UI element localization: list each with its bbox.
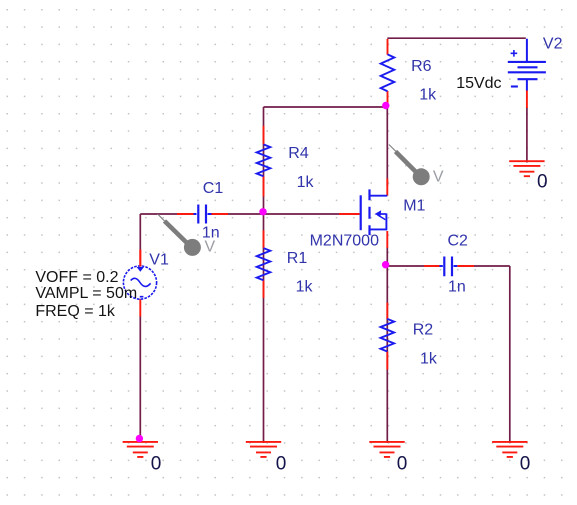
- svg-text:M2N7000: M2N7000: [310, 232, 379, 249]
- svg-text:0: 0: [520, 453, 531, 474]
- svg-text:V1: V1: [149, 252, 169, 269]
- svg-text:M1: M1: [403, 198, 425, 215]
- svg-text:C1: C1: [203, 180, 224, 197]
- svg-text:1n: 1n: [202, 225, 220, 242]
- svg-text:0: 0: [151, 453, 162, 474]
- svg-text:15Vdc: 15Vdc: [456, 75, 501, 92]
- svg-text:1k: 1k: [297, 174, 315, 191]
- svg-text:1k: 1k: [419, 86, 437, 103]
- svg-text:0: 0: [537, 171, 548, 192]
- svg-text:R1: R1: [287, 250, 308, 267]
- svg-text:C2: C2: [448, 232, 469, 249]
- svg-text:V: V: [433, 169, 444, 186]
- svg-text:FREQ = 1k: FREQ = 1k: [35, 303, 116, 320]
- svg-text:R6: R6: [411, 58, 432, 75]
- svg-text:V2: V2: [543, 36, 563, 53]
- svg-text:VAMPL = 50m: VAMPL = 50m: [35, 285, 137, 302]
- svg-text:VOFF = 0.2: VOFF = 0.2: [35, 269, 118, 286]
- svg-text:1k: 1k: [420, 351, 438, 368]
- svg-text:1n: 1n: [448, 279, 466, 296]
- svg-text:R4: R4: [288, 145, 309, 162]
- svg-text:R2: R2: [413, 321, 434, 338]
- svg-text:1k: 1k: [296, 279, 314, 296]
- svg-text:0: 0: [397, 453, 408, 474]
- svg-text:0: 0: [276, 453, 287, 474]
